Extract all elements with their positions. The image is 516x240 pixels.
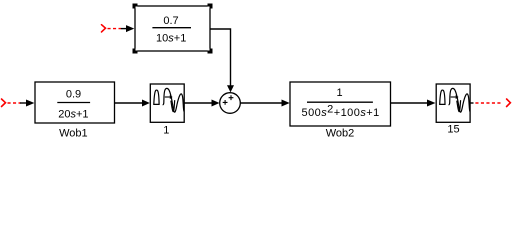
wire (black) into block U1 with arrowhead [121, 25, 135, 32]
svg-text:10s+1: 10s+1 [156, 33, 186, 45]
selection handle top-right [208, 4, 213, 9]
svg-text:1: 1 [163, 124, 169, 136]
wire (red dashed) into block U1 [108, 28, 122, 30]
wire Wob2 to filter block 15 with arrowhead [391, 100, 436, 107]
selection handle bottom-right [208, 49, 213, 54]
filter block 15 (wave icon) [436, 84, 470, 122]
selection handle top-left [133, 4, 138, 9]
label Wob1 [59, 127, 88, 139]
input port marker (red chevron) top-left [102, 25, 106, 32]
wire (black) into Wob1 with arrowhead [20, 100, 34, 107]
transfer function block U1 "0.7/(10s+1)" (selected) [135, 6, 210, 51]
wire (red dashed) into Wob1 [8, 102, 21, 104]
wire (red dashed) output [475, 102, 502, 104]
sum junction [220, 93, 241, 114]
label 1 [163, 124, 169, 136]
output port marker (red chevron) [507, 99, 511, 107]
label Wob2 [326, 128, 355, 140]
wire sum to Wob2 with arrowhead [240, 100, 289, 107]
svg-text:0.9: 0.9 [66, 89, 81, 101]
svg-text:1: 1 [336, 87, 342, 99]
svg-text:Wob1: Wob1 [59, 127, 88, 139]
input port marker (red chevron) bottom-left [2, 99, 6, 107]
selection handle bottom-left [133, 49, 138, 54]
svg-text:15: 15 [447, 124, 459, 136]
svg-text:Wob2: Wob2 [326, 128, 355, 140]
wire Wob1 to filter block 1 with arrowhead [115, 100, 150, 107]
filter block 1 (wave icon) [150, 84, 184, 122]
wire block 1 to sum with arrowhead [184, 100, 219, 107]
svg-text:0.7: 0.7 [163, 15, 178, 27]
transfer function block Wob2 "1/(500s2+100s+1)" [290, 82, 391, 126]
wire from U1 output down to sum junction with arrowhead [210, 29, 234, 92]
label 15 [447, 124, 459, 136]
svg-text:20s+1: 20s+1 [58, 109, 88, 121]
wire (black stub) out of block 15 [470, 102, 473, 104]
transfer function block Wob1 "0.9/(20s+1)" [35, 82, 115, 123]
